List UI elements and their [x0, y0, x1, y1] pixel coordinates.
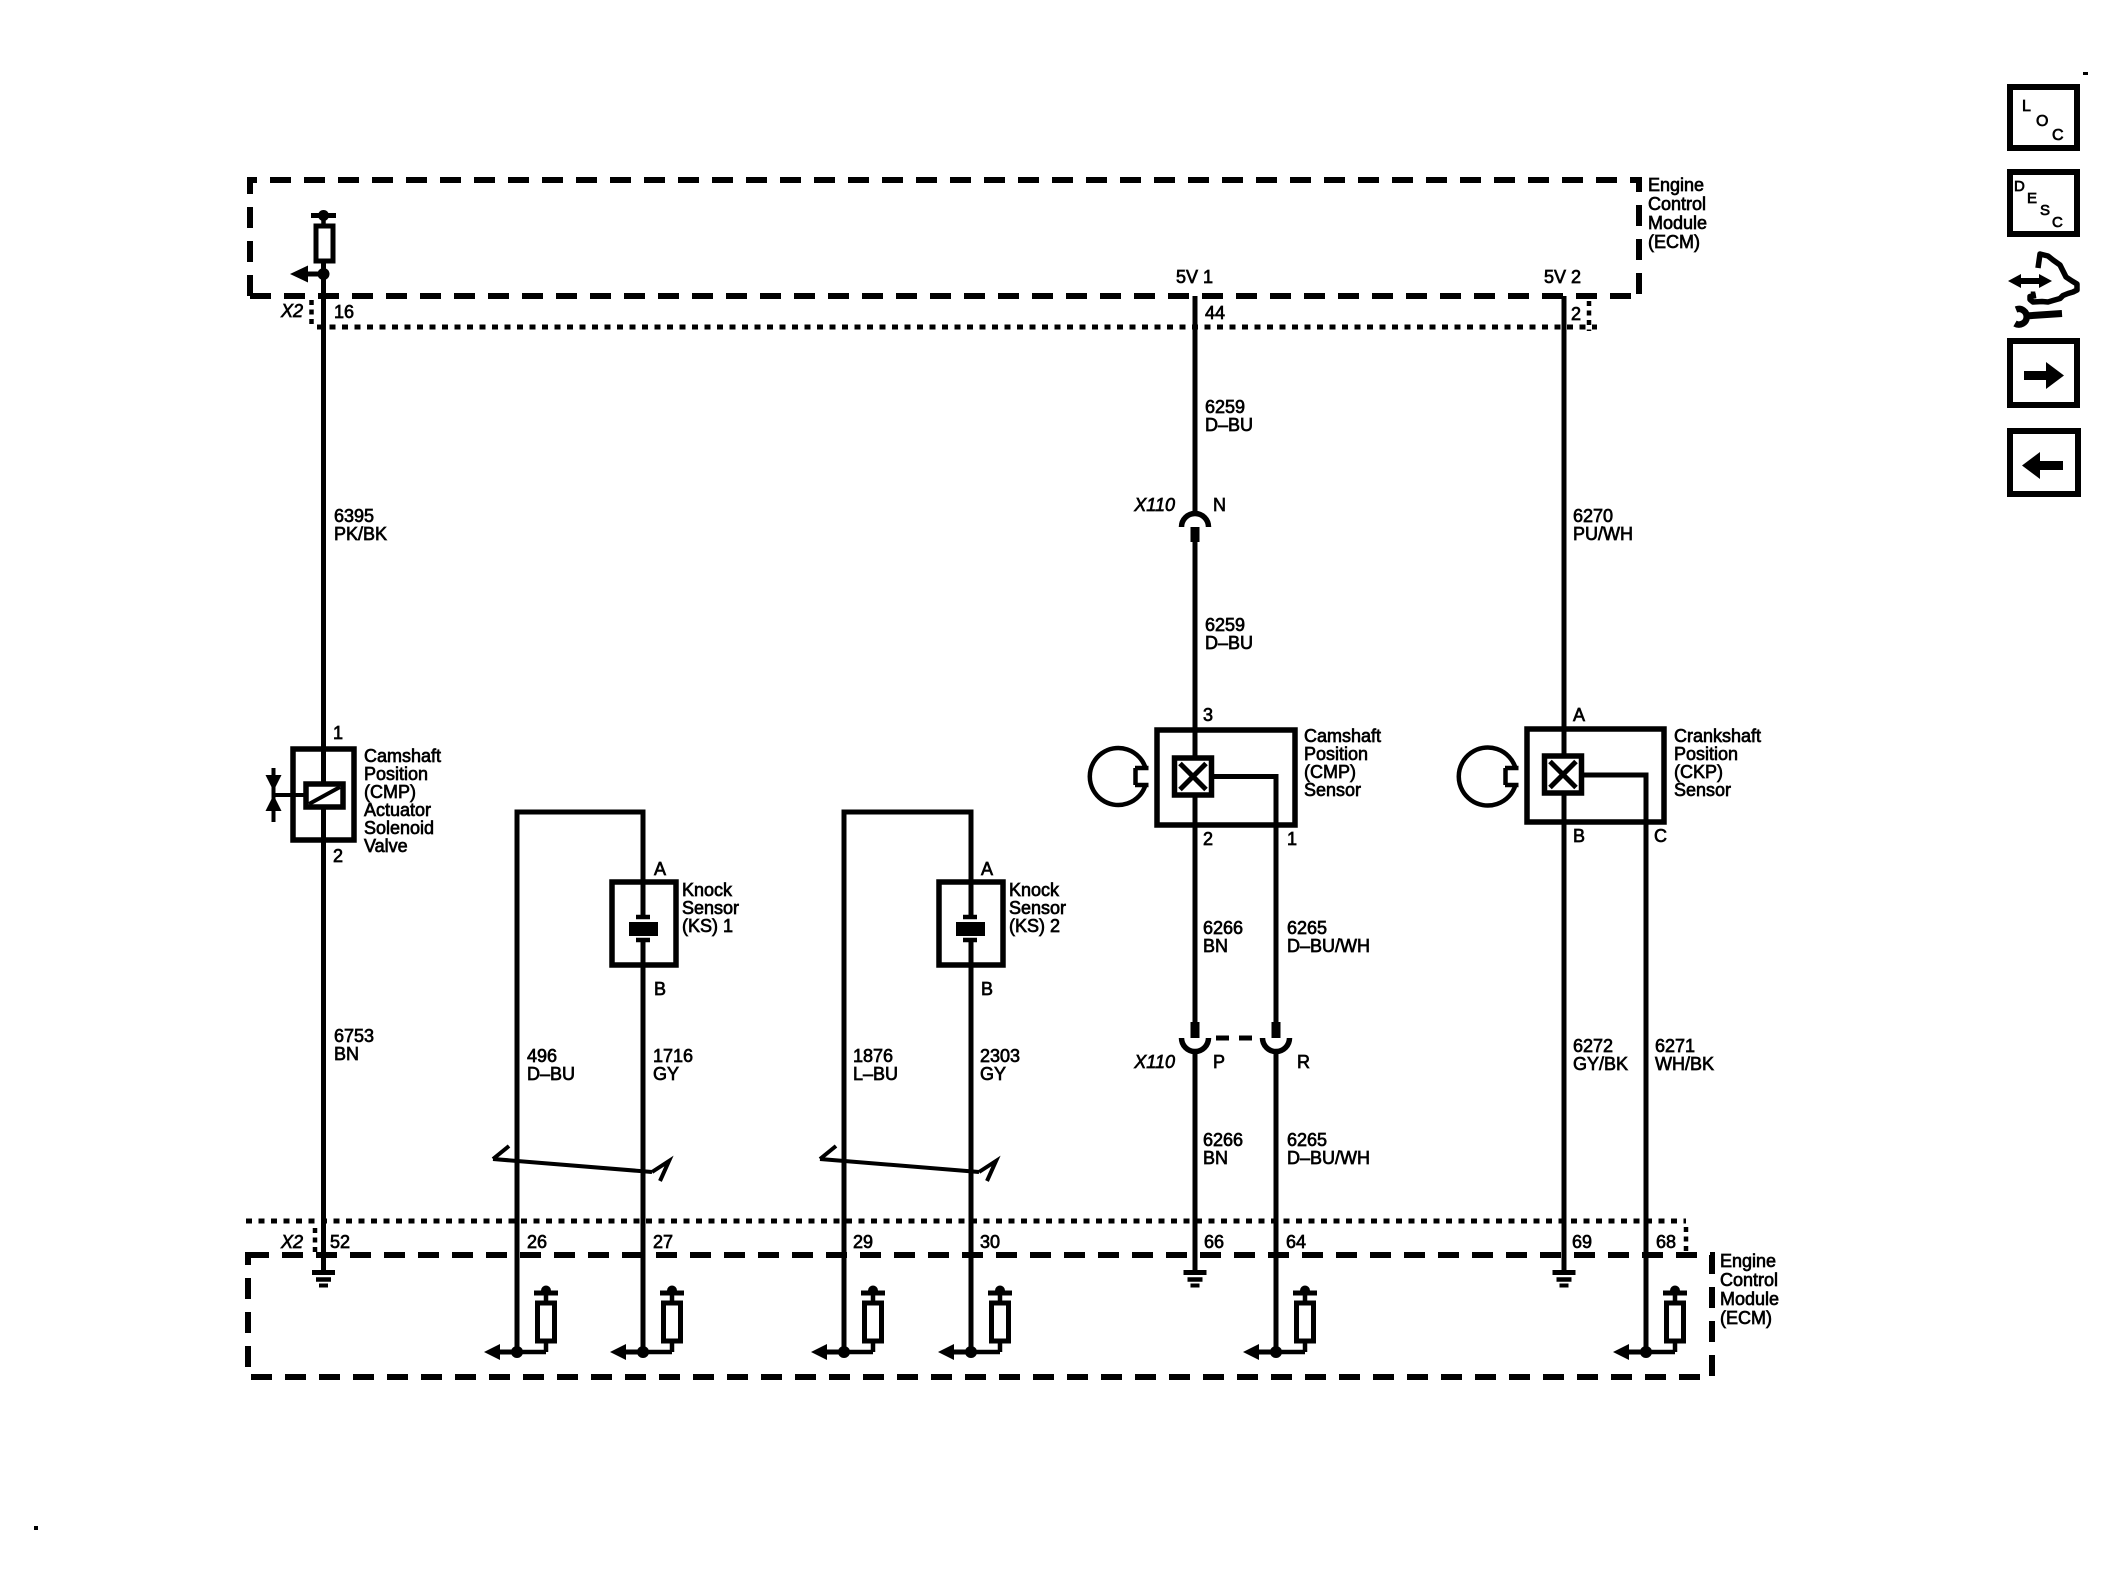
pin 2 label (valve): [333, 846, 343, 866]
svg-text:L: L: [2022, 98, 2031, 115]
arrow (circuit continues left) at pin 30: [938, 1344, 971, 1360]
knock sensor KS1 box: [612, 882, 676, 965]
wire 6753 BN (valve pin 2 to pin 52): [321, 840, 326, 1221]
separator dots right of pin 68: [1684, 1227, 1689, 1252]
label wire 6259 D-BU (upper): [1205, 397, 1253, 435]
label wire 6265 D-BU/WH (upper): [1287, 918, 1370, 956]
svg-text:Position: Position: [364, 764, 428, 784]
svg-text:496: 496: [527, 1046, 557, 1066]
stray mark top right: [2083, 72, 2088, 75]
svg-text:B: B: [981, 979, 993, 999]
label X110 (bottom): [1133, 1052, 1175, 1072]
wire through valve box: [321, 749, 326, 840]
label: Knock Sensor (KS) 2: [1009, 880, 1066, 936]
svg-text:44: 44: [1205, 303, 1225, 323]
pin 1 label (CMP): [1287, 829, 1297, 849]
separator dots right of X2 (bottom): [313, 1228, 318, 1253]
svg-text:6259: 6259: [1205, 615, 1245, 635]
label wire 6395 PK/BK: [334, 506, 387, 544]
svg-text:(KS) 1: (KS) 1: [682, 916, 733, 936]
svg-text:Knock: Knock: [1009, 880, 1060, 900]
resistor (ECM internal at pin 30): [971, 1286, 1012, 1353]
pin A label (CKP): [1573, 705, 1585, 725]
svg-text:64: 64: [1286, 1232, 1306, 1252]
svg-text:Module: Module: [1720, 1289, 1779, 1309]
svg-text:5V 2: 5V 2: [1544, 267, 1581, 287]
svg-text:D–BU/WH: D–BU/WH: [1287, 936, 1370, 956]
wire 6272 GY/BK (CKP pin B to pin 69): [1562, 793, 1567, 1221]
pin B label (KS2): [981, 979, 993, 999]
resistor (ECM internal at pin 26): [517, 1286, 558, 1353]
wire 1716 GY (KS1 pin B to pin 27): [641, 940, 646, 1221]
svg-text:A: A: [654, 859, 666, 879]
wire pin 29 into ECM: [842, 1221, 847, 1352]
svg-text:(KS) 2: (KS) 2: [1009, 916, 1060, 936]
label wire 1876 L-BU: [853, 1046, 898, 1084]
label: Camshaft Position (CMP) Sensor: [1304, 726, 1381, 800]
label wire 6259 D-BU (lower): [1205, 615, 1253, 653]
inline connector X110 terminal P: [1182, 1022, 1209, 1052]
terminal R label: [1297, 1052, 1310, 1072]
dashed link between X110 P and R: [1216, 1036, 1260, 1041]
wire pin 68 into ECM: [1644, 1221, 1649, 1352]
label wire 2303 GY: [980, 1046, 1020, 1084]
svg-text:6259: 6259: [1205, 397, 1245, 417]
svg-text:BN: BN: [1203, 936, 1228, 956]
svg-text:D–BU/WH: D–BU/WH: [1287, 1148, 1370, 1168]
resistor (ECM internal, pin 16 driver): [311, 210, 336, 261]
svg-text:6271: 6271: [1655, 1036, 1695, 1056]
arrow (circuit continues left) at pin 64: [1243, 1344, 1276, 1360]
svg-text:Camshaft: Camshaft: [1304, 726, 1381, 746]
svg-text:GY: GY: [980, 1064, 1006, 1084]
pin 16 label: [334, 302, 354, 322]
net label 5V 1: [1176, 267, 1213, 287]
svg-text:Control: Control: [1648, 194, 1706, 214]
svg-text:GY/BK: GY/BK: [1573, 1054, 1628, 1074]
ground symbol at pin 69 (ECM internal): [1553, 1221, 1576, 1286]
pin A label (KS1): [654, 859, 666, 879]
wire (loop top, KS2): [842, 810, 974, 815]
wire to KS2 pin A: [969, 812, 974, 917]
svg-text:D: D: [2014, 178, 2025, 195]
svg-text:Control: Control: [1720, 1270, 1778, 1290]
svg-text:29: 29: [853, 1232, 873, 1252]
svg-text:6753: 6753: [334, 1026, 374, 1046]
label wire 6266 BN (upper): [1203, 918, 1243, 956]
svg-text:1: 1: [1287, 829, 1297, 849]
svg-text:D–BU: D–BU: [1205, 633, 1253, 653]
arrow (circuit continues left) at pin 27: [610, 1344, 643, 1360]
pin 44 label: [1205, 303, 1225, 323]
wire pin 30 into ECM: [969, 1221, 974, 1352]
label wire 6271 WH/BK: [1655, 1036, 1714, 1074]
connector X2 label (top): [280, 301, 303, 321]
label wire 1716 GY: [653, 1046, 693, 1084]
piezo element (KS2): [956, 917, 985, 940]
svg-text:X110: X110: [1133, 495, 1175, 515]
pin 69 label: [1572, 1232, 1592, 1252]
pin 26 label: [527, 1232, 547, 1252]
svg-text:Sensor: Sensor: [682, 898, 739, 918]
svg-text:6270: 6270: [1573, 506, 1613, 526]
pin 27 label: [653, 1232, 673, 1252]
pin 30 label: [980, 1232, 1000, 1252]
arrow (circuit continues left) at pin 26: [484, 1344, 517, 1360]
wire pin 64 into ECM: [1274, 1221, 1279, 1352]
svg-text:S: S: [2040, 202, 2050, 219]
icon: forward arrow box: [2010, 341, 2077, 405]
svg-text:5V 1: 5V 1: [1176, 267, 1213, 287]
svg-text:Crankshaft: Crankshaft: [1674, 726, 1761, 746]
svg-text:16: 16: [334, 302, 354, 322]
pin 1 label (valve): [333, 723, 343, 743]
label: Engine Control Module (ECM) top: [1648, 175, 1707, 252]
label: Knock Sensor (KS) 1: [682, 880, 739, 936]
label X110 (top): [1133, 495, 1175, 515]
svg-text:P: P: [1213, 1052, 1225, 1072]
Engine Control Module (ECM) top dashed box: [250, 180, 1639, 296]
resistor (ECM internal at pin 64): [1276, 1286, 1317, 1353]
svg-text:Sensor: Sensor: [1304, 780, 1361, 800]
terminal P label: [1213, 1052, 1225, 1072]
svg-text:BN: BN: [334, 1044, 359, 1064]
label: Camshaft Position (CMP) Actuator Solenoid Valve: [364, 746, 441, 856]
pin 2 label (5V 2): [1571, 304, 1581, 324]
piezo element (KS1): [629, 917, 658, 940]
hall element (CKP) box-X symbol: [1545, 756, 1582, 793]
pin 66 label: [1204, 1232, 1224, 1252]
svg-text:3: 3: [1203, 705, 1213, 725]
svg-text:D–BU: D–BU: [527, 1064, 575, 1084]
icon: vehicle double-arrow: [2008, 274, 2052, 288]
wire 1876 (pin 29 riser): [842, 812, 847, 1221]
svg-text:Valve: Valve: [364, 836, 408, 856]
svg-text:6266: 6266: [1203, 1130, 1243, 1150]
arrow (circuit continues left) at pin 29: [811, 1344, 844, 1360]
svg-text:PK/BK: PK/BK: [334, 524, 387, 544]
arrow (circuit continues left) at pin 68: [1613, 1344, 1646, 1360]
svg-text:B: B: [654, 979, 666, 999]
svg-text:WH/BK: WH/BK: [1655, 1054, 1714, 1074]
svg-text:(ECM): (ECM): [1648, 232, 1700, 252]
svg-text:A: A: [1573, 705, 1585, 725]
wire CMP pin 2 down: [1193, 795, 1198, 1022]
wire 2303 GY (KS2 pin B to pin 30): [969, 940, 974, 1221]
connector row X2 (bottom) dotted line: [246, 1219, 1686, 1224]
camshaft position CMP sensor box: [1157, 730, 1295, 825]
svg-text:69: 69: [1572, 1232, 1592, 1252]
icon: wrench: [2015, 309, 2062, 325]
pin 64 label: [1286, 1232, 1306, 1252]
junction node at pin 30: [965, 1346, 977, 1358]
arrow (circuit continues left) at pin-16 node: [290, 266, 324, 283]
solenoid coil symbol (valve): [306, 784, 343, 807]
svg-text:(CMP): (CMP): [1304, 762, 1356, 782]
svg-text:Sensor: Sensor: [1009, 898, 1066, 918]
pin A label (KS2): [981, 859, 993, 879]
pin 52 label: [330, 1232, 350, 1252]
inline connector X110 terminal N: [1182, 514, 1209, 543]
svg-text:C: C: [2052, 127, 2064, 144]
connector row X2 (top) dotted line: [317, 325, 1597, 330]
twisted-pair mark (KS2 wires): [820, 1146, 996, 1181]
camshaft position actuator solenoid valve V1 box: [293, 749, 354, 840]
svg-text:L–BU: L–BU: [853, 1064, 898, 1084]
wire 6259 D-BU (pin 44 to X110 N): [1193, 296, 1198, 513]
pin B label (KS1): [654, 979, 666, 999]
svg-text:C: C: [1654, 826, 1667, 846]
wire 6395 PK/BK (pin 16 to valve pin 1): [321, 296, 326, 749]
wire CMP internal to pin 1: [1212, 774, 1277, 1022]
svg-text:1876: 1876: [853, 1046, 893, 1066]
reluctor wheel symbol (CKP): [1459, 748, 1519, 806]
svg-text:Position: Position: [1304, 744, 1368, 764]
svg-text:(CKP): (CKP): [1674, 762, 1723, 782]
svg-text:2: 2: [1203, 829, 1213, 849]
pin 2 label (CMP): [1203, 829, 1213, 849]
wire: resistor to pin 16: [321, 261, 326, 296]
knock sensor KS2 box: [939, 882, 1003, 965]
svg-text:30: 30: [980, 1232, 1000, 1252]
wire CKP internal to pin C: [1582, 773, 1647, 1222]
svg-text:52: 52: [330, 1232, 350, 1252]
svg-text:68: 68: [1656, 1232, 1676, 1252]
svg-text:2: 2: [1571, 304, 1581, 324]
label wire 6266 BN (lower): [1203, 1130, 1243, 1168]
junction node at pin 27: [637, 1346, 649, 1358]
ground symbol at pin 66 (ECM internal): [1184, 1221, 1207, 1286]
label wire 6272 GY/BK: [1573, 1036, 1628, 1074]
svg-text:Module: Module: [1648, 213, 1707, 233]
icon: back arrow box: [2010, 431, 2078, 494]
label wire 6265 D-BU/WH (lower): [1287, 1130, 1370, 1168]
reluctor wheel symbol (CMP): [1090, 748, 1149, 805]
wire 6265 D-BU/WH (X110 R to pin 64): [1274, 1052, 1279, 1221]
label wire 496 D-BU: [527, 1046, 575, 1084]
connector X2 label (bottom): [280, 1232, 303, 1252]
label: Crankshaft Position (CKP) Sensor: [1674, 726, 1761, 800]
svg-text:(ECM): (ECM): [1720, 1308, 1772, 1328]
inline connector X110 terminal R: [1263, 1022, 1290, 1052]
svg-text:Actuator: Actuator: [364, 800, 431, 820]
net label 5V 2: [1544, 267, 1581, 287]
svg-text:Position: Position: [1674, 744, 1738, 764]
svg-text:PU/WH: PU/WH: [1573, 524, 1633, 544]
svg-text:A: A: [981, 859, 993, 879]
svg-text:6265: 6265: [1287, 918, 1327, 938]
svg-text:Knock: Knock: [682, 880, 733, 900]
svg-text:6395: 6395: [334, 506, 374, 526]
wire pin 27 into ECM: [641, 1221, 646, 1352]
svg-text:26: 26: [527, 1232, 547, 1252]
svg-text:66: 66: [1204, 1232, 1224, 1252]
twisted-pair mark (KS1 wires): [493, 1146, 669, 1181]
junction node at pin 29: [838, 1346, 850, 1358]
svg-text:Camshaft: Camshaft: [364, 746, 441, 766]
svg-text:1: 1: [333, 723, 343, 743]
label: Engine Control Module (ECM) bottom: [1720, 1251, 1779, 1328]
wire (loop top, KS1): [515, 810, 646, 815]
svg-text:Engine: Engine: [1720, 1251, 1776, 1271]
separator dots right of pin 2: [1587, 301, 1592, 331]
svg-text:BN: BN: [1203, 1148, 1228, 1168]
svg-text:E: E: [2027, 190, 2037, 207]
wire 6270 PU/WH (pin 2 to CKP pin A): [1562, 296, 1567, 756]
ground symbol at pin 52 (ECM internal): [312, 1221, 335, 1286]
wire 6266 BN (X110 P to pin 66): [1193, 1052, 1198, 1221]
wire 6259 D-BU (X110 to CMP pin 3): [1193, 542, 1198, 758]
label wire 6753 BN: [334, 1026, 374, 1064]
Engine Control Module (ECM) bottom dashed box: [248, 1255, 1712, 1377]
resistor (ECM internal at pin 27): [643, 1286, 684, 1353]
separator dots left of pin 16: [309, 300, 314, 325]
svg-text:6272: 6272: [1573, 1036, 1613, 1056]
junction node at pin 64: [1270, 1346, 1282, 1358]
svg-text:Solenoid: Solenoid: [364, 818, 434, 838]
svg-text:1716: 1716: [653, 1046, 693, 1066]
wire 496 (pin 26 riser): [515, 812, 520, 1221]
svg-text:2303: 2303: [980, 1046, 1020, 1066]
svg-text:2: 2: [333, 846, 343, 866]
pin B label (CKP): [1573, 826, 1585, 846]
svg-text:Sensor: Sensor: [1674, 780, 1731, 800]
pin 68 label: [1656, 1232, 1676, 1252]
label wire 6270 PU/WH: [1573, 506, 1633, 544]
terminal N label: [1213, 495, 1226, 515]
icon: LOC box: [2010, 87, 2077, 148]
pin 3 label (CMP): [1203, 705, 1213, 725]
svg-text:27: 27: [653, 1232, 673, 1252]
junction node at pin 26: [511, 1346, 523, 1358]
svg-text:B: B: [1573, 826, 1585, 846]
svg-text:X2: X2: [280, 301, 303, 321]
icon: vehicle outline: [2030, 254, 2077, 302]
svg-text:Engine: Engine: [1648, 175, 1704, 195]
icon: DESC box: [2010, 172, 2077, 234]
svg-text:N: N: [1213, 495, 1226, 515]
resistor (ECM internal at pin 68): [1646, 1286, 1687, 1353]
svg-text:GY: GY: [653, 1064, 679, 1084]
svg-text:C: C: [2052, 214, 2063, 231]
svg-text:D–BU: D–BU: [1205, 415, 1253, 435]
svg-text:O: O: [2036, 113, 2048, 130]
junction node at pin 68: [1640, 1346, 1652, 1358]
svg-text:6265: 6265: [1287, 1130, 1327, 1150]
pin C label (CKP): [1654, 826, 1667, 846]
svg-text:R: R: [1297, 1052, 1310, 1072]
svg-text:X2: X2: [280, 1232, 303, 1252]
junction node on pin-16 wire: [318, 268, 330, 280]
svg-text:(CMP): (CMP): [364, 782, 416, 802]
wire to KS1 pin A: [641, 812, 646, 917]
svg-text:6266: 6266: [1203, 918, 1243, 938]
hall element (CMP) box-X symbol: [1175, 758, 1212, 795]
svg-text:X110: X110: [1133, 1052, 1175, 1072]
crankshaft position CKP sensor box: [1527, 729, 1664, 822]
stray mark bottom left: [34, 1526, 38, 1530]
pin 29 label: [853, 1232, 873, 1252]
wire pin 26 into ECM: [515, 1221, 520, 1352]
valve symbol (two triangles): [266, 768, 307, 822]
resistor (ECM internal at pin 29): [844, 1286, 885, 1353]
